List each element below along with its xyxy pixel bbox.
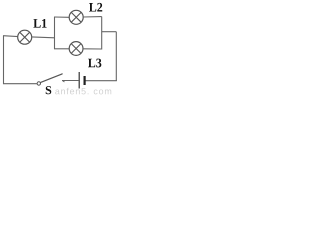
wire L1 to parallel junction: [32, 36, 55, 39]
battery: [62, 72, 85, 89]
label L2: [89, 3, 102, 12]
wire top branch to L2: [54, 16, 69, 18]
wire left vertical: [3, 36, 5, 84]
wire right vertical: [115, 32, 117, 81]
switch S blade: [40, 74, 62, 83]
lamp L3: [69, 42, 83, 56]
label L1: [33, 19, 46, 28]
wire tap to right edge: [102, 31, 117, 33]
wire L3 to right vertical: [83, 48, 102, 50]
lamp L2: [69, 10, 83, 24]
wire bottom right to battery: [86, 80, 117, 82]
label S: [46, 86, 52, 94]
watermark: [55, 88, 111, 95]
wire top-left horizontal to L1: [3, 35, 18, 38]
label L3: [88, 59, 101, 68]
wire bottom left to switch: [3, 83, 37, 85]
lamp L1: [18, 30, 32, 44]
switch S pivot: [37, 82, 40, 85]
wire parallel left vertical: [54, 17, 56, 49]
wire parallel right vertical: [101, 17, 103, 50]
wire L2 to right vertical: [83, 16, 102, 18]
wire bottom branch to L3: [54, 48, 69, 50]
